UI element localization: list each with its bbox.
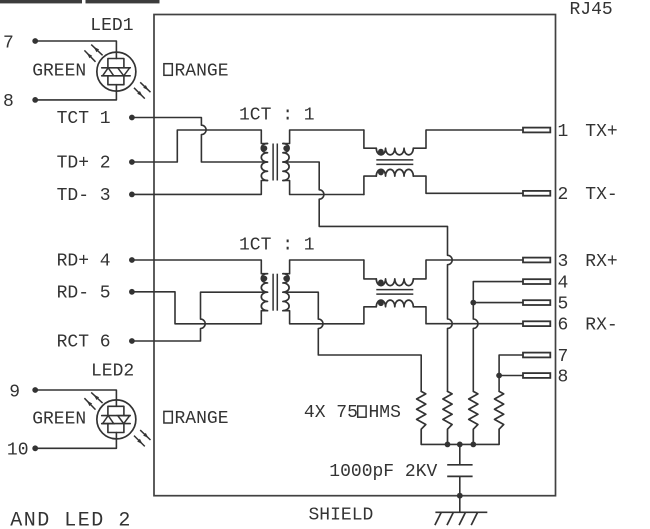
resistor R4 (75 ohm) [495,391,504,444]
svg-text:3: 3 [558,252,569,272]
choke CMC1 bottom polarity dot [378,170,384,176]
label RJ45 [570,0,613,20]
node RD-5 [129,289,135,295]
svg-text:1: 1 [558,122,569,142]
pin 2 label TX- [558,185,618,205]
choke CMC1 top winding [364,130,426,155]
ground bar [435,511,487,513]
svg-text:RCT 6: RCT 6 [57,333,111,353]
resistor R2 (75 ohm) [443,391,452,444]
capacitor C1 plates [447,465,472,477]
ground stem [459,496,461,513]
node pins 4-5 junction [470,300,476,306]
choke CMC2 top winding [364,260,426,286]
wire T1 secondary center tap to R2 [283,162,452,391]
wire pin 7 to node 78 [499,355,523,376]
LED LED1 frame bottom [108,76,124,85]
wire T2 secondary center tap to R1 [283,292,421,391]
pin 3 label RX+ [558,252,618,272]
pin 4 contact [523,279,550,284]
node shield junction [457,493,463,499]
pin 8 label [558,367,569,387]
svg-text:9: 9 [9,382,20,402]
svg-text:1CT : 1: 1CT : 1 [239,105,315,125]
wire T1 secondary bottom to CMC1 [283,181,364,195]
svg-text:RD- 5: RD- 5 [57,283,111,303]
LED LED2 diode left (up) [103,416,114,424]
svg-text:TCT 1: TCT 1 [57,109,111,129]
label 4X 75OHMS [304,403,401,423]
cropped text remnant (top edge) [0,0,160,3]
transformer T1 core [273,144,277,181]
svg-text:RX-: RX- [585,316,617,336]
svg-text:LED1: LED1 [90,16,133,36]
node LED1 top [32,38,38,44]
ground hatch strokes [435,512,478,525]
svg-text:TX-: TX- [585,185,617,205]
pin 8 label [3,92,14,112]
svg-text:7: 7 [3,33,14,53]
node RCT6 [129,338,135,344]
wire T1 secondary top to CMC1 [283,130,364,144]
svg-text:TD- 3: TD- 3 [57,186,111,206]
pin 6 label RX- [558,316,618,336]
capacitor C1 top lead [459,444,461,464]
pin 5 label [558,294,569,314]
LED LED1 light arrows upper [84,45,102,62]
LED LED2 diode right (down) [118,416,130,424]
label GREEN (LED2) [32,409,86,429]
capacitor C1 bottom lead [459,476,461,495]
LED LED1 diode left (up) [103,68,114,76]
node bus-cap [457,442,463,448]
svg-text:4X 75: 4X 75 [304,403,358,423]
pin TCT 1 label [57,109,111,129]
LED LED2 light arrows upper [84,392,102,409]
node RD+4 [129,257,135,263]
LED LED2 anode frame top [108,406,124,415]
pin 7 label [3,33,14,53]
svg-text:8: 8 [558,367,569,387]
pin 7 contact [523,353,550,358]
label ORANGE (LED1) [164,61,229,81]
pin RD- 5 label [57,283,111,303]
transformer T1 primary winding [261,144,267,181]
node LED2 top [32,387,38,393]
pin 1 contact [523,128,550,133]
wire to pin 1 [426,129,523,131]
wire pin 8 [499,375,523,377]
transformer T1 secondary winding [283,144,289,181]
wire T2 secondary bottom to CMC2 [283,311,364,324]
label T1 ratio 1CT : 1 [239,105,315,125]
label GREEN (LED1) [32,62,86,82]
node TD+2 [129,159,135,165]
LED LED1 circle [97,52,136,91]
wire resistor bus [421,443,499,445]
wire to pin 3 [426,259,523,261]
wire TD+ to T1 top [132,130,268,162]
pin wire LED2 top [35,390,116,406]
choke CMC1 bottom winding [364,169,426,194]
node TD-3 [129,192,135,198]
wire RD- to T2 bottom [132,292,268,324]
LED LED2 circle [97,400,136,439]
LED LED1 rails [102,68,131,76]
node pins 7-8 junction [496,373,502,379]
svg-text:GREEN: GREEN [32,409,86,429]
wire to pin 2 [426,192,523,194]
wire TCT1 to T1 center tap [132,118,268,163]
svg-text:8: 8 [3,92,14,112]
transformer T2 primary winding [261,274,267,311]
svg-text:5: 5 [558,294,569,314]
label SHIELD [309,505,374,525]
pin wire LED1 top [35,41,116,59]
svg-text:RX+: RX+ [585,252,617,272]
LED LED1 light arrows lower [134,82,151,98]
transformer T2 secondary polarity dot [283,276,289,282]
svg-text:RJ45: RJ45 [570,0,613,20]
label ORANGE (LED2) [164,409,229,429]
pin 10 label [7,440,29,460]
svg-text:4: 4 [558,273,569,293]
svg-text:1000pF 2KV: 1000pF 2KV [329,462,437,482]
pin 2 contact [523,191,550,196]
label 1000pF 2KV [329,462,437,482]
pin RD+ 4 label [57,252,111,272]
choke CMC2 bottom winding [364,300,426,324]
wire pin 5 [473,302,523,304]
wire node 78 to R4 [498,376,500,392]
pin TD+ 2 label [57,154,111,174]
wire to pin 6 [426,323,523,325]
svg-text:GREEN: GREEN [32,62,86,82]
wire node 45 to R3 [473,303,478,392]
node TCT1 [129,115,135,121]
pin 5 contact [523,300,550,305]
LED LED1 anode frame top [108,59,124,68]
node bus-R2 [445,442,451,448]
LED LED1 diode right (down) [118,68,130,76]
RJ45 module outline [154,15,556,496]
transformer T2 secondary winding [283,274,289,311]
svg-text:10: 10 [7,440,29,460]
pin wire LED1 bottom [35,85,116,100]
svg-text:6: 6 [558,316,569,336]
svg-text:HMS: HMS [369,403,401,423]
svg-text:RD+ 4: RD+ 4 [57,252,111,272]
svg-text:TD+ 2: TD+ 2 [57,154,111,174]
wire RCT to T2 center tap [132,292,268,341]
LED LED2 light arrows lower [134,430,151,446]
pin 3 contact [523,258,550,263]
LED LED2 frame bottom [108,424,124,433]
label LED1 [90,16,133,36]
transformer T2 primary polarity dot [262,276,268,282]
pin 8 contact [523,373,550,378]
svg-text:1CT : 1: 1CT : 1 [239,235,315,255]
node LED2 bottom [32,445,38,451]
wire pin 4 to node 45 [473,282,523,303]
transformer T2 core [273,274,277,311]
svg-text:RANGE: RANGE [175,409,229,429]
LED LED2 rails [102,416,131,424]
transformer T1 secondary polarity dot [283,145,289,151]
wire TD- to T1 bottom [132,181,268,195]
label LED2 [91,362,134,382]
choke CMC1 core [376,160,413,165]
svg-text:SHIELD: SHIELD [309,505,374,525]
svg-text:LED2: LED2 [91,362,134,382]
transformer T1 primary polarity dot [262,145,268,151]
wire RD+ to T2 top [132,260,268,274]
pin 9 label [9,382,20,402]
svg-text:7: 7 [558,347,569,367]
choke CMC2 top polarity dot [378,280,384,286]
svg-text:RANGE: RANGE [175,61,229,81]
svg-text:TX+: TX+ [585,122,617,142]
pin 6 contact [523,321,550,326]
svg-text:AND LED 2: AND LED 2 [10,509,132,529]
wire T2 secondary top to CMC2 [283,260,364,274]
pin 7 label [558,347,569,367]
resistor R3 (75 ohm) [469,391,478,444]
resistor R1 (75 ohm) [417,391,426,444]
pin TD- 3 label [57,186,111,206]
choke CMC1 top polarity dot [378,149,384,155]
svg-text:2: 2 [558,185,569,205]
choke CMC2 core [376,290,413,295]
label T2 ratio 1CT : 1 [239,235,315,255]
pin 1 label TX+ [558,122,618,142]
node LED1 bottom [32,97,38,103]
node bus-R3 [470,442,476,448]
pin wire LED2 bottom [35,433,116,449]
pin 4 label [558,273,569,293]
pin RCT 6 label [57,333,111,353]
caption AND LED 2 [10,509,132,529]
choke CMC2 bottom polarity dot [378,300,384,306]
